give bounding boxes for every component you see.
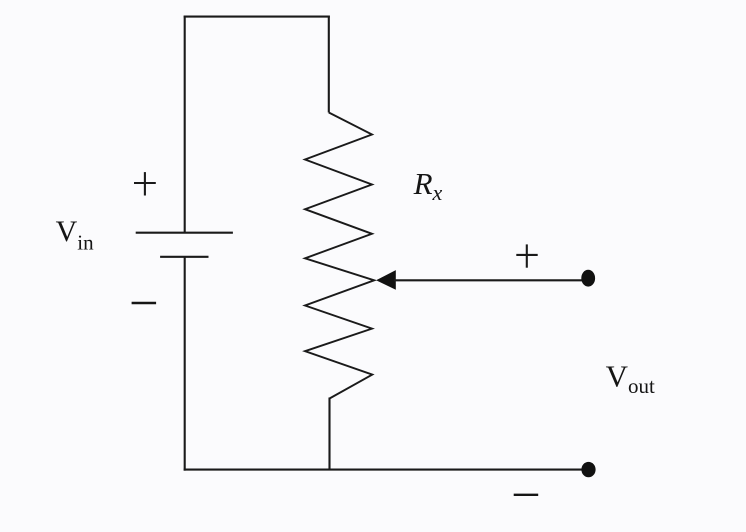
- label: battery minus sign: [132, 302, 157, 305]
- battery B1 (Vin): long positive plate: [136, 232, 233, 234]
- wire: wiper to Vout positive terminal: [394, 279, 588, 281]
- label: Vout plus sign: [516, 244, 537, 267]
- label: battery plus sign: [134, 172, 156, 195]
- node: Vout positive terminal dot: [581, 270, 595, 287]
- wire: top horizontal rail: [184, 16, 330, 18]
- svg-text:Vin: Vin: [56, 215, 95, 254]
- wire: down from top rail to resistor top: [328, 16, 330, 113]
- battery B1 (Vin): short negative plate: [160, 256, 208, 258]
- label: Vout minus sign: [514, 494, 539, 496]
- wire: battery positive lead up from long plate: [184, 16, 186, 233]
- svg-text:Vout: Vout: [606, 359, 655, 399]
- svg-text:Rx: Rx: [413, 166, 443, 205]
- node: Vout negative terminal dot: [581, 462, 595, 477]
- wire: resistor bottom lead down to bottom rail: [328, 398, 330, 470]
- wiper arrow head (points left into Rx): [376, 270, 396, 290]
- resistor Rx: zigzag body: [305, 113, 374, 399]
- wire: battery negative lead down to bottom rail: [184, 257, 186, 471]
- wire: bottom rail to Vout negative terminal: [184, 469, 589, 471]
